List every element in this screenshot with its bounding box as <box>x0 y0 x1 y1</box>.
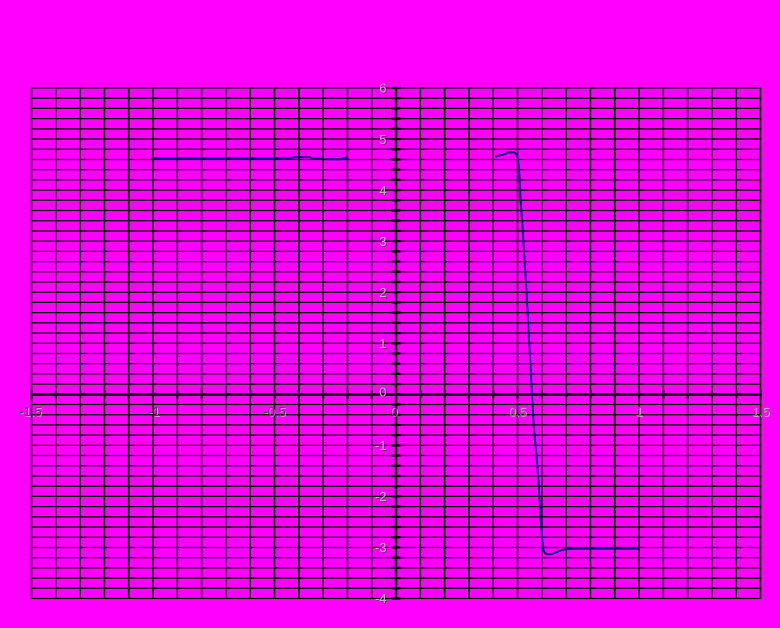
svg-text:-1: -1 <box>148 404 160 419</box>
svg-text:0: 0 <box>379 385 386 400</box>
svg-text:-3: -3 <box>375 540 387 555</box>
svg-text:2: 2 <box>379 285 386 300</box>
svg-text:1.5: 1.5 <box>751 404 769 419</box>
y-axis <box>395 88 398 599</box>
svg-text:0: 0 <box>390 404 397 419</box>
svg-text:4: 4 <box>379 183 386 198</box>
svg-text:-2: -2 <box>375 489 387 504</box>
svg-text:-1.5: -1.5 <box>19 404 41 419</box>
x-axis <box>32 393 761 396</box>
svg-text:3: 3 <box>379 234 386 249</box>
svg-text:-1: -1 <box>375 438 387 453</box>
minor horizontal gridlines (y = -4 to 6 step 0.2) <box>32 88 761 599</box>
svg-text:-0.5: -0.5 <box>263 404 285 419</box>
svg-text:0.5: 0.5 <box>508 404 526 419</box>
curve left branch (flat at y≈4.65 from x=-1 to x=-0.2) <box>151 157 347 159</box>
svg-text:5: 5 <box>379 132 386 147</box>
curve right branch (peak near x=0.47, steep drop at x≈0.55, flat at y≈-3 to x=1) <box>495 152 639 554</box>
svg-text:1: 1 <box>635 404 642 419</box>
x-axis tick marks <box>32 390 761 399</box>
svg-text:1: 1 <box>379 336 386 351</box>
svg-text:-4: -4 <box>375 591 387 606</box>
svg-text:6: 6 <box>379 81 386 96</box>
minor vertical gridlines (x = -1.5 to 1.5 step 0.1) <box>32 88 761 599</box>
y-axis tick marks <box>391 88 400 599</box>
